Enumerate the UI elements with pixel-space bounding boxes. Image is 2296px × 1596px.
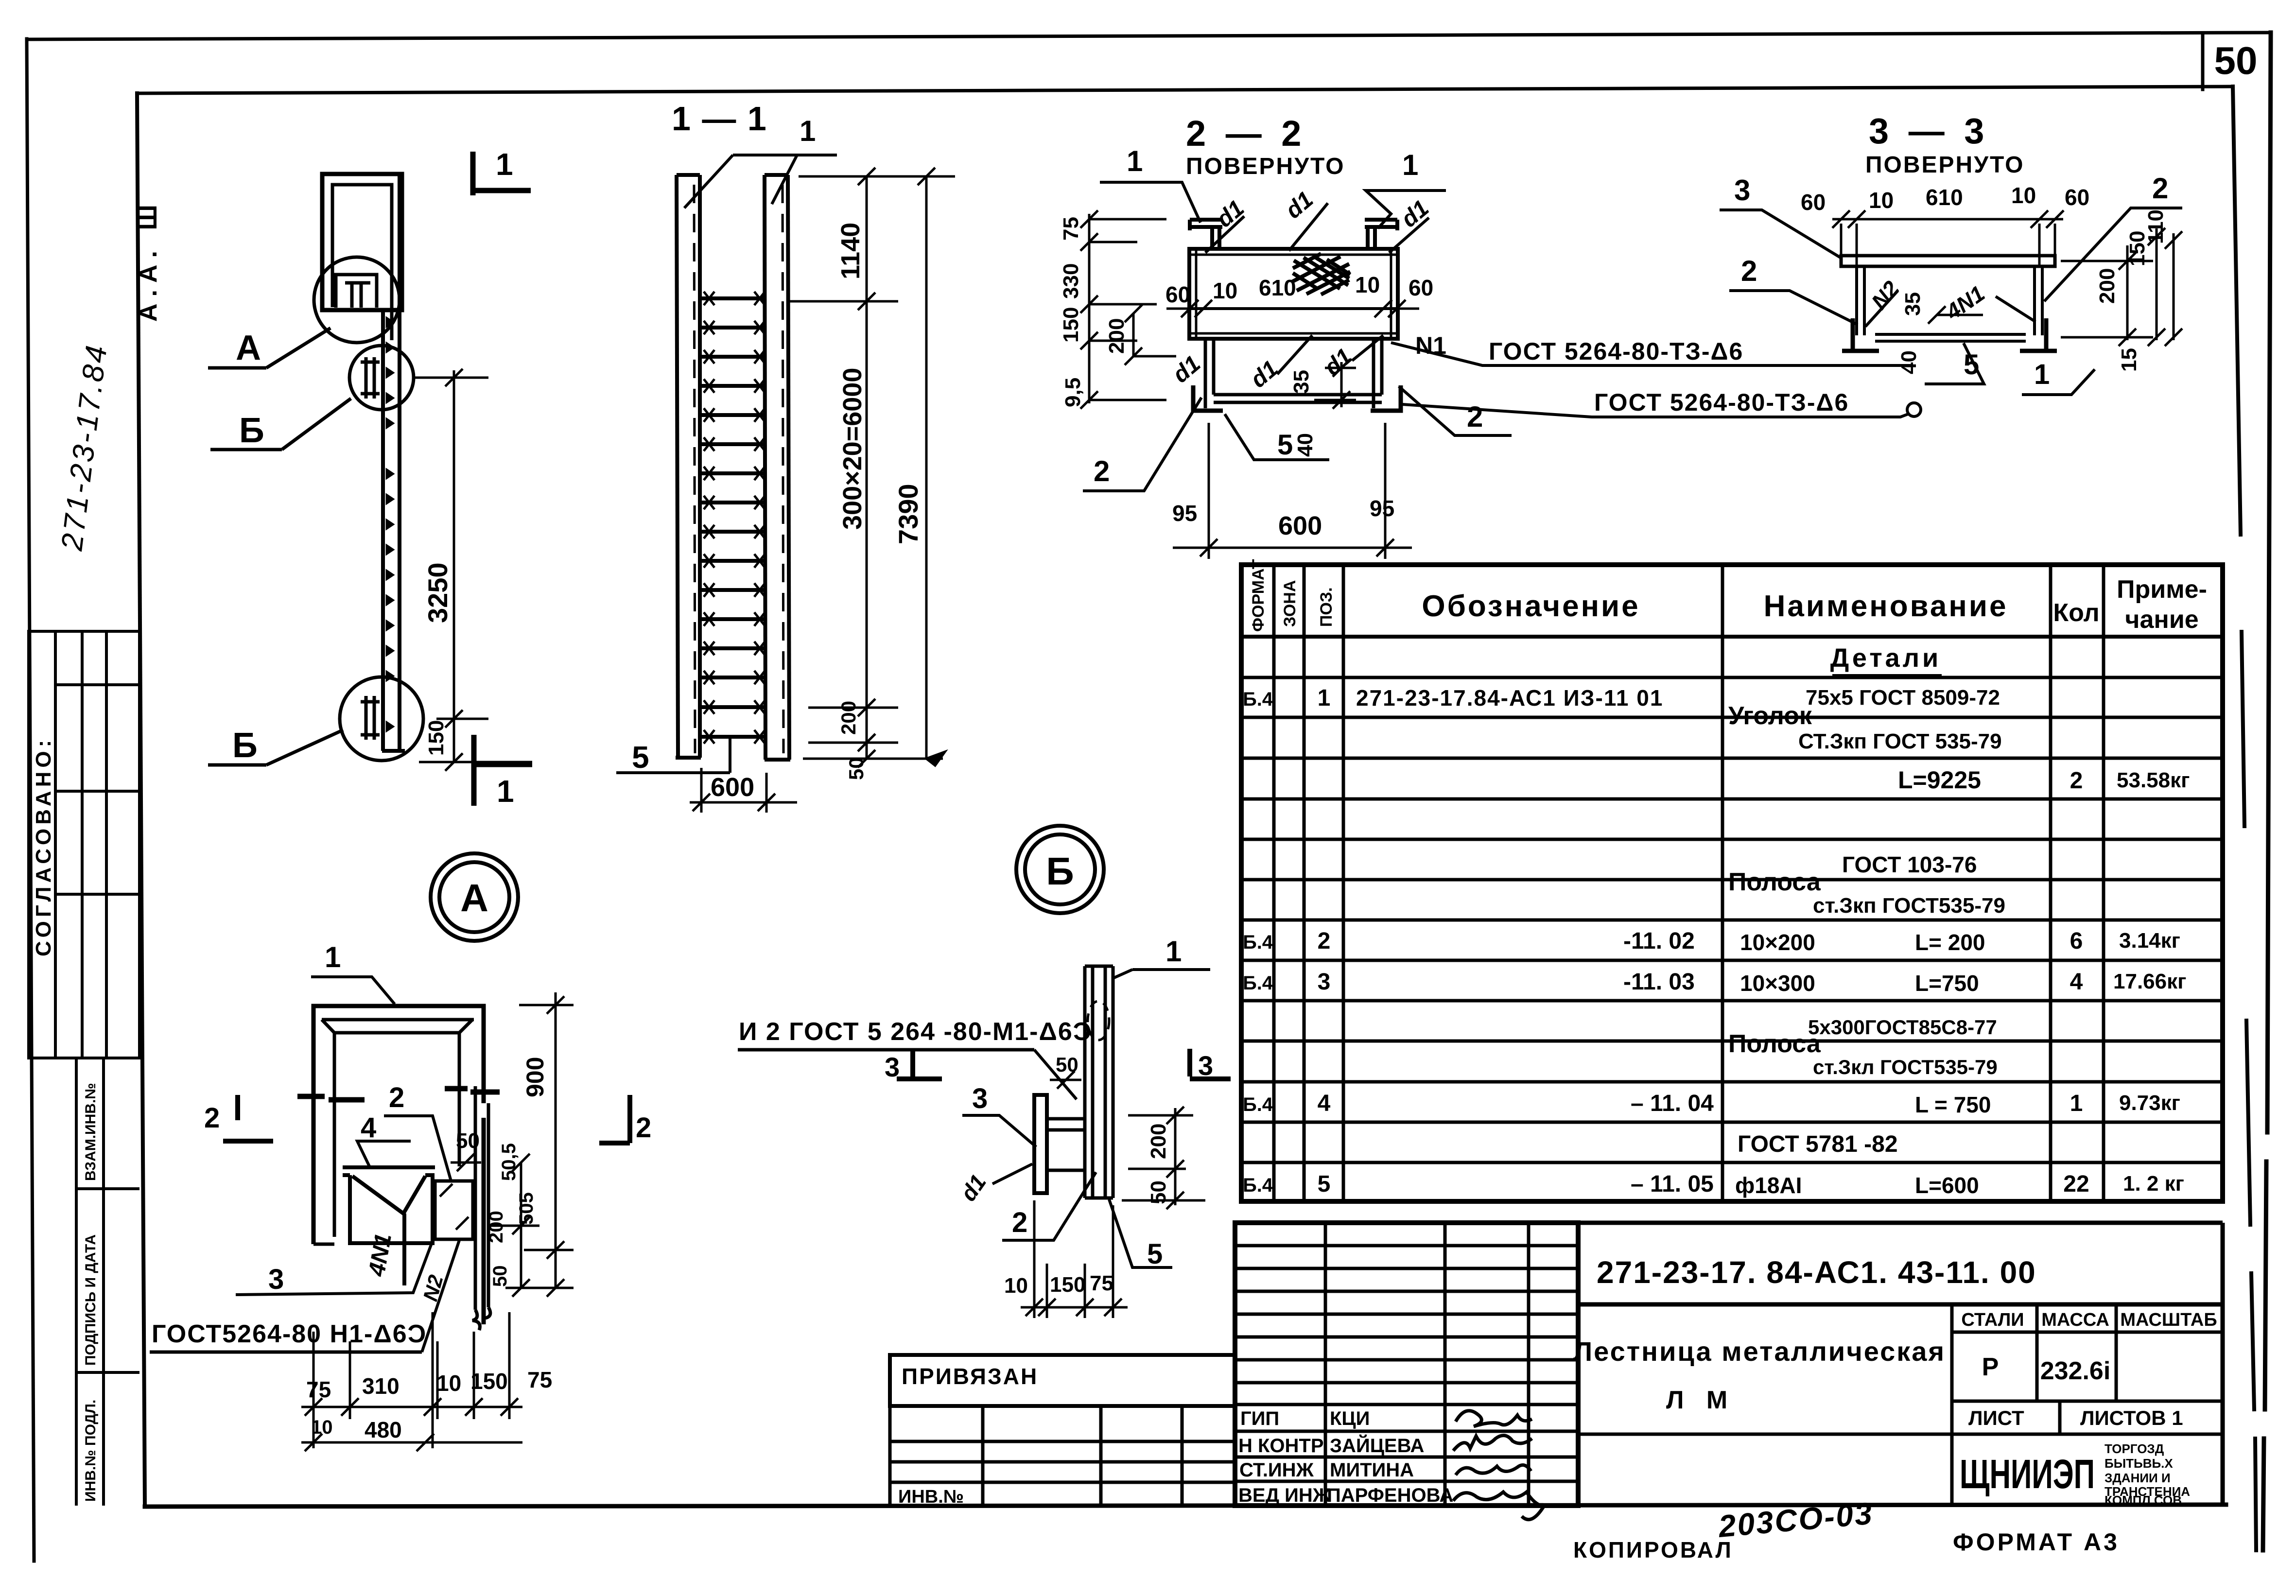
svg-text:480: 480 bbox=[365, 1417, 402, 1442]
bracket symbol in circle B lower bbox=[361, 696, 380, 740]
dim 600 bottom of 2-2 bbox=[1173, 423, 1412, 559]
svg-text:ЗДАНИИ И: ЗДАНИИ И bbox=[2105, 1471, 2171, 1485]
svg-text:900: 900 bbox=[522, 1057, 549, 1097]
right plate bbox=[2035, 266, 2042, 335]
svg-text:Наименование: Наименование bbox=[1764, 590, 2008, 623]
left dim chain 75 330 150 200 95 bbox=[1080, 210, 1176, 409]
svg-text:10×200: 10×200 bbox=[1740, 930, 1815, 955]
svg-text:Б.4: Б.4 bbox=[1243, 932, 1273, 953]
dimension 3250/150 bbox=[414, 369, 532, 771]
svg-text:А: А bbox=[236, 329, 261, 367]
bottom dims 75 310 10 150 75 bbox=[301, 1312, 522, 1451]
svg-text:ЩНИИЭП: ЩНИИЭП bbox=[1960, 1451, 2095, 1497]
dim 35 40 left of bottom bar bbox=[1915, 306, 1983, 334]
svg-text:Б: Б bbox=[239, 411, 264, 450]
upper left stamp box bbox=[29, 631, 139, 1058]
inner frame left bbox=[137, 93, 145, 1506]
dim line 7390 bbox=[918, 168, 945, 765]
svg-text:ПОЗ.: ПОЗ. bbox=[1317, 587, 1336, 627]
rung weld ticks bbox=[704, 292, 765, 744]
svg-text:60: 60 bbox=[1409, 275, 1433, 300]
svg-text:1: 1 bbox=[497, 774, 514, 809]
svg-text:271-23-17. 84-АС1. 43-11. 00: 271-23-17. 84-АС1. 43-11. 00 bbox=[1597, 1255, 2036, 1290]
end plate left bbox=[1193, 339, 1223, 411]
svg-text:ЛИСТ: ЛИСТ bbox=[1968, 1406, 2024, 1429]
rungs bbox=[700, 298, 765, 737]
svg-text:50,5: 50,5 bbox=[498, 1143, 520, 1181]
svg-text:ПАРФЕНОВА: ПАРФЕНОВА bbox=[1327, 1485, 1453, 1506]
callout title circle B bbox=[1016, 826, 1104, 913]
svg-text:МАСШТАБ: МАСШТАБ bbox=[2120, 1310, 2217, 1330]
hook channel outer bbox=[313, 1006, 484, 1324]
inner frame bottom bbox=[145, 1505, 2226, 1507]
titleblock signature table frame bbox=[1235, 1223, 1578, 1506]
svg-text:40: 40 bbox=[1293, 433, 1317, 457]
svg-text:ГОСТ 5264-80-ТЗ-Δ6: ГОСТ 5264-80-ТЗ-Δ6 bbox=[1594, 389, 1849, 416]
svg-text:200: 200 bbox=[1147, 1124, 1170, 1159]
rung end marks on rail bbox=[387, 318, 393, 730]
svg-text:2: 2 bbox=[204, 1102, 220, 1134]
bracket symbol in circle B upper bbox=[361, 357, 380, 399]
signature rows bbox=[1238, 1408, 1453, 1506]
svg-text:10: 10 bbox=[1004, 1274, 1028, 1298]
svg-text:ВЕД ИНЖ: ВЕД ИНЖ bbox=[1238, 1485, 1331, 1506]
svg-text:КОМПЛ.СОВ: КОМПЛ.СОВ bbox=[2105, 1493, 2182, 1508]
svg-text:5х300ГОСТ85С8-77: 5х300ГОСТ85С8-77 bbox=[1808, 1016, 1997, 1039]
svg-text:ПОВЕРНУТО: ПОВЕРНУТО bbox=[1865, 152, 2025, 178]
titleblock right section frame bbox=[1578, 1221, 2223, 1225]
svg-text:2: 2 bbox=[2070, 768, 2083, 794]
svg-text:60: 60 bbox=[1165, 282, 1190, 307]
svg-text:3: 3 bbox=[972, 1083, 988, 1114]
svg-text:75: 75 bbox=[527, 1367, 552, 1392]
bracket web bbox=[1047, 1119, 1085, 1170]
svg-text:СТ.Зкп ГОСТ 535-79: СТ.Зкп ГОСТ 535-79 bbox=[1798, 729, 2002, 753]
svg-text:1140: 1140 bbox=[836, 223, 865, 279]
svg-text:А.А. Ш: А.А. Ш bbox=[134, 198, 162, 322]
rung plate rect bbox=[1189, 249, 1398, 339]
svg-text:10: 10 bbox=[1869, 188, 1894, 213]
svg-text:ГОСТ5264-80 Н1-Δ6Ɔ: ГОСТ5264-80 Н1-Δ6Ɔ bbox=[152, 1320, 427, 1348]
svg-text:9.73кг: 9.73кг bbox=[2119, 1091, 2180, 1115]
svg-text:50: 50 bbox=[1056, 1053, 1078, 1076]
right foot angle bbox=[2020, 318, 2057, 351]
svg-text:4: 4 bbox=[2070, 969, 2083, 995]
dims 60 10 610 10 60 inside bbox=[1165, 272, 1433, 307]
svg-text:ГИП: ГИП bbox=[1240, 1408, 1279, 1429]
svg-text:10: 10 bbox=[1355, 272, 1380, 297]
svg-text:Полоса: Полоса bbox=[1728, 1030, 1821, 1058]
svg-text:505: 505 bbox=[516, 1192, 537, 1225]
right rail bbox=[765, 175, 765, 760]
svg-text:Б.4: Б.4 bbox=[1243, 972, 1273, 994]
svg-text:СОГЛАСОВАНО:: СОГЛАСОВАНО: bbox=[32, 736, 55, 956]
section mark 1 top bbox=[473, 152, 531, 195]
svg-text:-11. 03: -11. 03 bbox=[1623, 969, 1695, 995]
svg-text:3: 3 bbox=[1198, 1050, 1213, 1081]
end plate right bbox=[1371, 339, 1401, 411]
svg-text:КОПИРОВАЛ: КОПИРОВАЛ bbox=[1573, 1537, 1733, 1562]
svg-text:L = 750: L = 750 bbox=[1915, 1092, 1991, 1117]
svg-text:150: 150 bbox=[470, 1369, 508, 1394]
svg-text:5: 5 bbox=[632, 740, 649, 775]
outer border right bbox=[2263, 33, 2271, 1550]
svg-text:Полоса: Полоса bbox=[1728, 868, 1821, 896]
svg-text:10: 10 bbox=[311, 1417, 333, 1438]
svg-text:ФОРМАТ А3: ФОРМАТ А3 bbox=[1953, 1528, 2120, 1556]
svg-text:ЗОНА: ЗОНА bbox=[1281, 580, 1299, 627]
svg-text:Лестница металлическая: Лестница металлическая bbox=[1573, 1336, 1946, 1367]
svg-text:60: 60 bbox=[2065, 185, 2089, 210]
svg-text:Б.4: Б.4 bbox=[1243, 1094, 1273, 1115]
svg-text:150: 150 bbox=[424, 720, 448, 756]
svg-text:15: 15 bbox=[2117, 348, 2141, 372]
svg-text:ВЗАМ.ИНВ.№: ВЗАМ.ИНВ.№ bbox=[83, 1083, 99, 1181]
bottom bar bbox=[1875, 334, 2026, 341]
svg-text:ГОСТ 5781 -82: ГОСТ 5781 -82 bbox=[1738, 1131, 1898, 1157]
svg-text:2: 2 bbox=[1012, 1207, 1027, 1238]
lower left stamp box bbox=[75, 1058, 78, 1506]
svg-text:Уголок: Уголок bbox=[1728, 702, 1812, 730]
outer border left bbox=[27, 39, 34, 1561]
svg-text:5: 5 bbox=[1964, 349, 1979, 381]
svg-text:95: 95 bbox=[1370, 496, 1394, 521]
svg-text:17.66кг: 17.66кг bbox=[2113, 970, 2186, 993]
svg-text:L=750: L=750 bbox=[1915, 971, 1979, 996]
right dim 200 50 bbox=[1122, 1107, 1205, 1209]
svg-text:110: 110 bbox=[2144, 209, 2168, 244]
svg-text:СТ.ИНЖ: СТ.ИНЖ bbox=[1239, 1459, 1314, 1481]
svg-text:150: 150 bbox=[1059, 307, 1083, 343]
svg-text:ИНВ.№ ПОДЛ.: ИНВ.№ ПОДЛ. bbox=[83, 1400, 99, 1502]
svg-text:2: 2 bbox=[2152, 172, 2168, 205]
svg-text:150: 150 bbox=[1050, 1273, 1085, 1297]
svg-text:2: 2 bbox=[1094, 455, 1110, 487]
right dim 200 150 110 15 bbox=[2061, 228, 2182, 346]
svg-text:2: 2 bbox=[636, 1112, 651, 1144]
svg-text:-11. 02: -11. 02 bbox=[1623, 928, 1695, 954]
privyazan box bbox=[890, 1355, 1235, 1406]
svg-text:чание: чание bbox=[2125, 606, 2198, 634]
svg-text:7390: 7390 bbox=[893, 484, 923, 544]
weld crosshatch on plate bbox=[1292, 254, 1350, 295]
svg-text:10×300: 10×300 bbox=[1740, 971, 1815, 996]
svg-text:75: 75 bbox=[306, 1377, 331, 1402]
svg-text:А: А bbox=[460, 876, 488, 919]
flange plate bbox=[1034, 1095, 1047, 1193]
svg-text:ФОРМАТ: ФОРМАТ bbox=[1249, 559, 1268, 632]
dim line 1140 / 300x20=6000 / 200 / 50 bbox=[787, 168, 955, 767]
svg-text:4: 4 bbox=[1318, 1091, 1331, 1116]
svg-text:2 — 2: 2 — 2 bbox=[1186, 113, 1306, 154]
outer border top bbox=[28, 33, 2271, 39]
section mark 1 bottom bbox=[474, 735, 532, 806]
svg-text:600: 600 bbox=[711, 773, 754, 802]
svg-text:Н КОНТР: Н КОНТР bbox=[1238, 1435, 1324, 1457]
wall hook channel outer bbox=[322, 174, 402, 310]
svg-text:ГОСТ 5264-80-ТЗ-Δ6: ГОСТ 5264-80-ТЗ-Δ6 bbox=[1489, 338, 1743, 365]
svg-text:200: 200 bbox=[486, 1211, 507, 1243]
rail vertical in detail B bbox=[1085, 966, 1113, 1198]
svg-text:Кол: Кол bbox=[2053, 599, 2099, 627]
svg-text:1: 1 bbox=[2070, 1091, 2083, 1116]
svg-text:ст.Зкл ГОСТ535-79: ст.Зкл ГОСТ535-79 bbox=[1813, 1056, 1998, 1078]
svg-text:610: 610 bbox=[1926, 185, 1963, 210]
svg-text:9,5: 9,5 bbox=[1061, 378, 1085, 407]
svg-text:2: 2 bbox=[1467, 400, 1483, 433]
svg-text:310: 310 bbox=[362, 1373, 400, 1399]
svg-text:МАССА: МАССА bbox=[2041, 1310, 2109, 1330]
N2 plate rect bbox=[435, 1181, 473, 1239]
svg-text:Б.4: Б.4 bbox=[1243, 689, 1273, 710]
svg-text:10: 10 bbox=[436, 1370, 461, 1396]
left rail bbox=[677, 175, 678, 758]
wall hook channel inner bbox=[332, 185, 392, 340]
svg-text:5: 5 bbox=[1277, 429, 1293, 461]
svg-text:1. 2 кг: 1. 2 кг bbox=[2123, 1172, 2184, 1196]
left foot angle bbox=[1842, 318, 1879, 351]
svg-text:600: 600 bbox=[1278, 511, 1322, 540]
svg-text:271-23-17.84-АС1 ИЗ-11 01: 271-23-17.84-АС1 ИЗ-11 01 bbox=[1356, 685, 1663, 711]
svg-text:35: 35 bbox=[1901, 292, 1925, 316]
svg-text:3.14кг: 3.14кг bbox=[2119, 929, 2180, 953]
svg-text:10: 10 bbox=[2011, 183, 2036, 208]
rail (side view) bbox=[381, 310, 385, 751]
rail hidden dashed lines bbox=[694, 185, 783, 753]
svg-text:КЦИ: КЦИ bbox=[1330, 1408, 1370, 1429]
svg-text:3250: 3250 bbox=[422, 562, 453, 623]
svg-text:10: 10 bbox=[1213, 278, 1237, 303]
callout circle B lower bbox=[340, 677, 423, 761]
svg-text:75: 75 bbox=[1090, 1271, 1113, 1295]
svg-text:И 2 ГОСТ 5 264 -80-М1-Δ6Ɔ: И 2 ГОСТ 5 264 -80-М1-Δ6Ɔ bbox=[739, 1018, 1092, 1046]
top bar bbox=[1841, 256, 2055, 266]
svg-text:– 11. 05: – 11. 05 bbox=[1631, 1171, 1714, 1197]
svg-text:ПОДПИСЬ И ДАТА: ПОДПИСЬ И ДАТА bbox=[83, 1234, 99, 1366]
bottom dims 10 150 75 bbox=[1021, 1200, 1128, 1318]
svg-text:200: 200 bbox=[2095, 268, 2119, 304]
svg-text:1: 1 bbox=[1402, 149, 1418, 181]
svg-text:60: 60 bbox=[1801, 190, 1826, 215]
svg-text:ЛИСТОВ 1: ЛИСТОВ 1 bbox=[2080, 1406, 2183, 1429]
svg-text:1: 1 bbox=[800, 115, 816, 147]
callout circle A bbox=[314, 257, 400, 343]
hook inner comb detail bbox=[336, 275, 377, 308]
svg-text:22: 22 bbox=[2063, 1171, 2089, 1197]
svg-text:ПОВЕРНУТО: ПОВЕРНУТО bbox=[1186, 154, 1345, 179]
svg-text:3 — 3: 3 — 3 bbox=[1869, 111, 1989, 151]
section cut marks 2-2 right bbox=[445, 1089, 500, 1092]
svg-text:2: 2 bbox=[1741, 255, 1757, 287]
svg-text:1: 1 bbox=[496, 147, 513, 182]
svg-text:2: 2 bbox=[389, 1082, 404, 1113]
svg-text:L= 200: L= 200 bbox=[1915, 930, 1985, 955]
svg-text:50: 50 bbox=[456, 1129, 480, 1153]
svg-text:6: 6 bbox=[2070, 928, 2083, 954]
svg-text:Б: Б bbox=[232, 726, 258, 765]
svg-text:50: 50 bbox=[2214, 39, 2258, 82]
svg-text:Приме-: Приме- bbox=[2117, 575, 2207, 604]
svg-text:200: 200 bbox=[1105, 318, 1129, 354]
svg-text:ст.Зкп ГОСТ535-79: ст.Зкп ГОСТ535-79 bbox=[1813, 894, 2005, 918]
hole dashed in rail bbox=[1088, 1001, 1109, 1040]
svg-text:200: 200 bbox=[837, 701, 860, 735]
nested dims 505 200 505 50 bbox=[491, 1154, 539, 1297]
svg-text:Б.4: Б.4 bbox=[1243, 1175, 1273, 1196]
svg-text:СТАЛИ: СТАЛИ bbox=[1961, 1310, 2024, 1330]
svg-text:35: 35 bbox=[1289, 370, 1313, 394]
svg-text:Б: Б bbox=[1046, 850, 1074, 893]
left plate bbox=[1857, 266, 1864, 335]
svg-text:4: 4 bbox=[361, 1112, 376, 1144]
svg-text:ЗАЙЦЕВА: ЗАЙЦЕВА bbox=[1330, 1434, 1424, 1457]
section cut marks 2-2 left bbox=[297, 1096, 365, 1100]
signatures scribbles bbox=[1453, 1411, 1544, 1520]
dim 600 bottom bbox=[690, 768, 797, 813]
svg-text:Обозначение: Обозначение bbox=[1422, 590, 1640, 623]
inner bracket U bbox=[343, 1167, 435, 1285]
svg-text:53.58кг: 53.58кг bbox=[2117, 768, 2190, 792]
hook channel inner bbox=[313, 1020, 474, 1244]
svg-text:1: 1 bbox=[2034, 359, 2050, 390]
svg-text:1: 1 bbox=[1318, 685, 1331, 711]
svg-text:ИНВ.№: ИНВ.№ bbox=[898, 1487, 964, 1507]
svg-text:5: 5 bbox=[1147, 1238, 1163, 1270]
svg-text:330: 330 bbox=[1059, 263, 1083, 299]
rail lines in detail A bbox=[472, 1086, 490, 1330]
svg-text:Детали: Детали bbox=[1830, 643, 1941, 673]
lower flat bar bbox=[1214, 395, 1382, 402]
svg-text:1: 1 bbox=[1127, 145, 1143, 177]
svg-text:300×20=6000: 300×20=6000 bbox=[838, 368, 867, 530]
svg-text:БЫТЬВЬ.Х: БЫТЬВЬ.Х bbox=[2105, 1456, 2173, 1471]
svg-text:2: 2 bbox=[1318, 928, 1331, 954]
svg-text:L=9225: L=9225 bbox=[1898, 766, 1981, 794]
svg-text:МИТИНА: МИТИНА bbox=[1330, 1459, 1414, 1481]
svg-text:95: 95 bbox=[1172, 501, 1197, 526]
sheet number box bbox=[2201, 34, 2205, 89]
svg-text:Р: Р bbox=[1982, 1353, 1999, 1381]
callout title circle A bbox=[431, 853, 518, 941]
inner frame top bbox=[137, 87, 2233, 93]
angle rail section right bbox=[1365, 220, 1397, 249]
dim 900 right bbox=[505, 992, 574, 1297]
svg-text:1 — 1: 1 — 1 bbox=[672, 100, 767, 138]
dim 35 near bottom bar bbox=[1314, 359, 1356, 409]
svg-text:ф18АI: ф18АI bbox=[1735, 1173, 1802, 1198]
svg-text:75: 75 bbox=[1059, 217, 1083, 241]
top dim chain 60 10 610 10 60 bbox=[1832, 210, 2064, 265]
angle rail section left bbox=[1190, 220, 1222, 249]
svg-text:75х5 ГОСТ 8509-72: 75х5 ГОСТ 8509-72 bbox=[1806, 686, 2000, 710]
svg-text:ГОСТ 103-76: ГОСТ 103-76 bbox=[1842, 852, 1977, 877]
svg-text:– 11. 04: – 11. 04 bbox=[1631, 1091, 1714, 1116]
ticks on mid line bbox=[1166, 300, 1419, 317]
svg-text:ПРИВЯЗАН: ПРИВЯЗАН bbox=[902, 1364, 1038, 1389]
svg-text:232.6i: 232.6i bbox=[2040, 1357, 2111, 1385]
svg-text:3: 3 bbox=[1318, 969, 1331, 995]
svg-text:610: 610 bbox=[1259, 275, 1296, 300]
svg-text:50: 50 bbox=[845, 757, 868, 780]
callout circle B upper bbox=[349, 346, 414, 410]
svg-text:Л М: Л М bbox=[1666, 1386, 1735, 1414]
svg-text:50: 50 bbox=[1147, 1180, 1170, 1204]
svg-text:1: 1 bbox=[1165, 935, 1182, 968]
svg-text:3: 3 bbox=[268, 1264, 284, 1295]
svg-text:50: 50 bbox=[489, 1266, 511, 1287]
svg-text:3: 3 bbox=[1734, 174, 1750, 207]
svg-text:ТОРГОЗД: ТОРГОЗД bbox=[2105, 1441, 2164, 1456]
svg-text:1: 1 bbox=[325, 941, 341, 973]
inner frame right (dashed lower) bbox=[2233, 87, 2256, 1550]
svg-text:L=600: L=600 bbox=[1915, 1173, 1979, 1198]
svg-text:40: 40 bbox=[1897, 350, 1921, 374]
svg-text:5: 5 bbox=[1318, 1171, 1331, 1197]
